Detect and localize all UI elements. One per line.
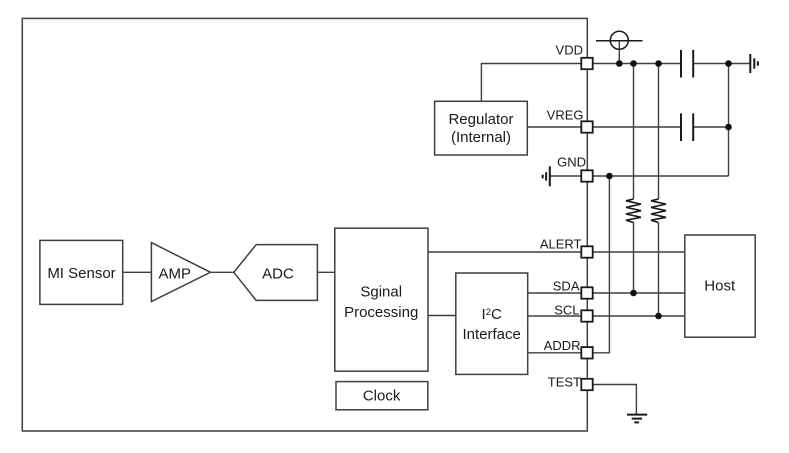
svg-text:SDA: SDA [553,279,580,294]
svg-text:VREG: VREG [547,107,584,122]
svg-text:VDD: VDD [556,43,583,58]
svg-text:Clock: Clock [363,388,401,405]
svg-text:Processing: Processing [344,304,418,321]
svg-text:ALERT: ALERT [540,237,582,252]
svg-text:Host: Host [704,277,736,294]
svg-text:Interface: Interface [463,326,521,343]
svg-text:GND: GND [557,155,586,170]
svg-text:ADDR: ADDR [544,338,581,353]
svg-text:AMP: AMP [159,266,192,283]
svg-text:I2C: I2C [482,306,502,323]
svg-text:SCL: SCL [554,303,579,318]
svg-text:(Internal): (Internal) [451,129,511,146]
svg-text:ADC: ADC [262,266,294,283]
svg-text:MI Sensor: MI Sensor [47,265,115,282]
svg-text:Sginal: Sginal [360,284,402,301]
svg-text:Regulator: Regulator [448,111,513,128]
svg-text:TEST: TEST [548,374,581,389]
